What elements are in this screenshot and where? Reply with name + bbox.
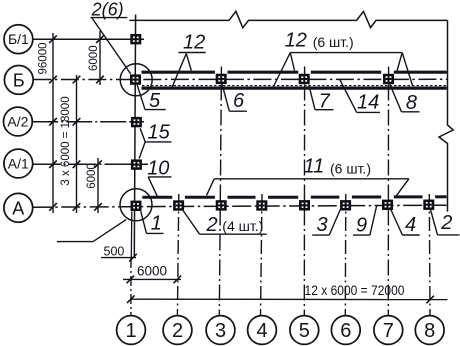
vertical axis 3 [219, 85, 221, 316]
bubble axis A/1 [4, 149, 33, 178]
label 9 leader [370, 206, 377, 236]
axis line B/1 horizontal [33, 38, 144, 40]
svg-text:500: 500 [104, 244, 125, 258]
svg-text:Б: Б [13, 70, 25, 90]
svg-text:12: 12 [285, 29, 307, 51]
svg-text:3 x 6000 = 18000: 3 x 6000 = 18000 [60, 96, 72, 185]
column A x6 [340, 200, 351, 210]
node circle at A x axis1 [120, 189, 152, 221]
label 10 underline [148, 176, 171, 178]
column A/2 x1 [131, 117, 142, 127]
crane beam B bottom chord thick line [142, 86, 447, 89]
label 2 (4 pcs) underline [200, 233, 267, 235]
bubble axis 7 [374, 316, 403, 345]
label 7 underline [315, 109, 334, 111]
svg-text:2: 2 [172, 320, 183, 342]
bracket 11 right drop [396, 179, 409, 196]
svg-text:3: 3 [317, 214, 328, 236]
bracket 11 left drop [207, 179, 215, 196]
bubble axis 4 [248, 316, 277, 345]
bubble axis A [4, 193, 33, 222]
wall panel thick dashed line at A (element 11) [142, 195, 446, 198]
column B x7 [383, 74, 394, 84]
svg-text:1: 1 [125, 320, 136, 342]
vertical axis 8 [428, 194, 431, 316]
label 2 (4 pcs) leader [183, 211, 199, 234]
top border break line with zigzags [129, 11, 447, 28]
bubble axis 1 [117, 316, 146, 345]
right border break line with zigzag [439, 20, 453, 211]
axis line A/2 horizontal [32, 121, 144, 123]
node circle at B x axis1 [120, 64, 152, 96]
svg-text:9: 9 [356, 215, 367, 237]
column B x3 [216, 74, 227, 84]
bubble axis A/2 [4, 107, 33, 136]
label 15 leader up [140, 128, 145, 142]
bubble axis B/1 [4, 25, 33, 54]
bracket 12 left lambda long leg [273, 53, 290, 88]
bubble axis 6 [331, 316, 360, 345]
axis line B horizontal (dash-dot) [33, 78, 447, 80]
label 2(6) leader [92, 18, 131, 74]
vertical axis 5 stub above beam [304, 67, 306, 75]
bracket 12 left lambda short leg [290, 53, 294, 71]
column A x8 [423, 200, 434, 210]
beam B inner thin dashed line (element 14) [142, 85, 447, 87]
label 14 leader [340, 80, 357, 113]
label 6 leader [222, 82, 230, 111]
dim line 96000 vertical [52, 33, 54, 213]
vertical axis 4 [261, 194, 263, 316]
node reference flag line [57, 241, 93, 243]
svg-text:Б/1: Б/1 [8, 31, 29, 47]
svg-text:12 x 6000 = 72000: 12 x 6000 = 72000 [305, 283, 405, 298]
svg-text:6: 6 [340, 320, 351, 342]
svg-text:5: 5 [149, 90, 161, 112]
label 4 underline [402, 234, 419, 236]
label 3 underline [312, 234, 329, 236]
label 8 underline [402, 111, 420, 113]
dimension lines [53, 31, 448, 300]
svg-text:8: 8 [424, 320, 435, 342]
crane beam B top chord thick segments [142, 71, 447, 74]
svg-text:(6 шт.): (6 шт.) [313, 34, 354, 50]
svg-text:14: 14 [357, 91, 379, 113]
svg-text:4: 4 [256, 320, 267, 342]
node reference flag diagonal [93, 220, 126, 242]
bubble axis 3 [206, 316, 235, 345]
svg-text:2: 2 [440, 212, 452, 234]
label 15 underline [145, 141, 171, 143]
svg-text:7: 7 [319, 90, 331, 112]
column squares [130, 34, 434, 211]
bracket 12 right lambda short leg [397, 53, 402, 71]
dim line 6000 lower vertical [97, 158, 99, 213]
label 1 leader [141, 211, 147, 233]
svg-text:(4 шт.): (4 шт.) [222, 218, 263, 234]
dimension tick marks (45 deg) [49, 35, 434, 303]
dim line 6000 upper vertical [99, 31, 101, 85]
svg-text:(6 шт.): (6 шт.) [330, 160, 371, 176]
svg-text:7: 7 [383, 320, 394, 342]
label 5 leader [137, 85, 145, 110]
label 8 leader [390, 84, 402, 112]
bracket 12 right lambda long leg [402, 53, 412, 86]
label 2(6) underline [90, 17, 127, 19]
label 12 left leader leg long [172, 54, 186, 88]
vertical axis 7 [387, 85, 389, 316]
label 2 right leader [431, 210, 438, 235]
label 1 underline [147, 232, 164, 234]
vertical axis 5 [303, 85, 305, 316]
svg-text:96000: 96000 [38, 43, 50, 75]
vertical axis 1 lower to circle [130, 258, 132, 316]
dim line 72000 bottom [131, 298, 448, 300]
svg-text:А/2: А/2 [7, 114, 28, 130]
vertical axis 6 [344, 194, 347, 316]
bubble axis 2 [163, 316, 192, 345]
vertical axis 2 [177, 194, 178, 316]
svg-text:6: 6 [233, 90, 245, 112]
label 5 underline [145, 109, 166, 111]
column B x1 [130, 74, 141, 84]
column A x3 [216, 200, 227, 210]
label 14 underline [357, 111, 380, 113]
column A x1 [131, 201, 142, 211]
bubble axis B [4, 66, 33, 95]
svg-text:2: 2 [206, 214, 218, 236]
svg-text:6000: 6000 [86, 163, 98, 189]
axis line A/1 horizontal [33, 163, 149, 165]
label 7 leader [309, 85, 315, 110]
dim line 6000 bottom [123, 278, 181, 280]
dim line 18000 vertical [76, 75, 78, 213]
vertical axis 7 stub above beam [388, 67, 390, 75]
svg-text:1: 1 [151, 213, 162, 235]
vertical axis 1 main [134, 15, 135, 259]
vertical axis 3 stub above beam [220, 67, 222, 75]
svg-text:5: 5 [299, 320, 310, 342]
bubble axis 8 [415, 316, 444, 345]
vertical axis 1 edge line (500mm offset) [130, 212, 133, 259]
svg-text:А: А [12, 198, 24, 218]
svg-text:2(6): 2(6) [91, 0, 124, 19]
label 12 left leader leg short [186, 54, 191, 71]
callout labels with leaders [57, 18, 460, 242]
svg-text:8: 8 [406, 92, 417, 114]
svg-text:10: 10 [147, 158, 169, 180]
callout label texts [91, 0, 453, 237]
svg-text:А/1: А/1 [8, 156, 29, 172]
svg-text:12: 12 [183, 32, 205, 54]
svg-text:4: 4 [405, 214, 416, 236]
column A x2 [173, 200, 184, 210]
column B/1 x1 [130, 34, 141, 44]
column A x5 [299, 200, 310, 210]
label 15 leader down [139, 142, 145, 159]
column A x4 [256, 200, 267, 210]
column A/1 x1 [131, 159, 142, 169]
svg-text:15: 15 [148, 121, 171, 143]
label 10 leader [148, 177, 157, 197]
bracket 12 (6 pcs) line [290, 52, 402, 54]
label 4 leader [391, 210, 403, 236]
label 2 right underline [438, 234, 460, 236]
svg-text:6000: 6000 [137, 264, 167, 279]
label 12 left underline [179, 52, 206, 54]
svg-text:3: 3 [215, 320, 226, 342]
svg-text:6000: 6000 [88, 45, 100, 71]
svg-text:11: 11 [304, 155, 325, 177]
dimension texts [38, 43, 405, 299]
label 3 leader [329, 210, 340, 236]
column A x7 [382, 200, 393, 210]
axis line A horizontal (dash-dot) [33, 205, 447, 207]
dim line 500 [101, 257, 136, 259]
label 9 underline [353, 234, 370, 236]
column B x5 [299, 74, 310, 84]
bubble axis 5 [290, 316, 319, 345]
bracket 11 (6 pcs) line [214, 178, 409, 180]
label 6 underline [229, 110, 247, 112]
